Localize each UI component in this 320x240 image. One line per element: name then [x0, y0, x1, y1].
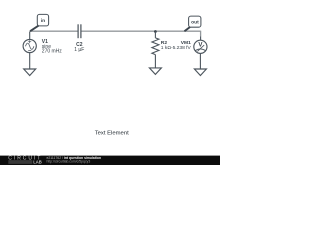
- ground below R2: [149, 68, 161, 75]
- node flag out: [184, 16, 201, 31]
- voltmeter VM1: [194, 37, 207, 70]
- capacitor C2: [78, 24, 81, 38]
- svg-text:R2: R2: [161, 40, 168, 46]
- footer bar: [0, 156, 220, 165]
- ground below V1: [24, 69, 36, 76]
- wire vertical into voltmeter: [200, 31, 202, 37]
- label VM1 value: [171, 40, 192, 51]
- CircuitLab logo: [8, 156, 42, 165]
- svg-text:VM1: VM1: [181, 40, 191, 46]
- svg-text:1 µF: 1 µF: [74, 47, 84, 53]
- svg-text:-5.238 fV: -5.238 fV: [171, 45, 192, 51]
- svg-text:270 mHz: 270 mHz: [42, 48, 63, 54]
- voltage source V1: [23, 32, 36, 70]
- label V1 value: [42, 39, 63, 54]
- wire main horizontal left of C2: [30, 30, 78, 32]
- label R2 value: [161, 40, 172, 51]
- node A junction dot: [154, 30, 157, 33]
- svg-text:in: in: [41, 18, 45, 24]
- wire main horizontal right of C2: [81, 30, 200, 32]
- resistor R2: [152, 32, 159, 68]
- svg-text:http://circuitlab.com/c/5pqcy3: http://circuitlab.com/c/5pqcy3: [47, 160, 91, 164]
- node flag in: [30, 14, 48, 31]
- ground below VM1: [194, 69, 206, 76]
- svg-text:LAB: LAB: [33, 160, 42, 165]
- svg-text:1 kΩ: 1 kΩ: [161, 45, 172, 51]
- svg-text:Text Element: Text Element: [95, 131, 129, 137]
- svg-text:out: out: [191, 20, 199, 26]
- label C2 value: [74, 42, 84, 53]
